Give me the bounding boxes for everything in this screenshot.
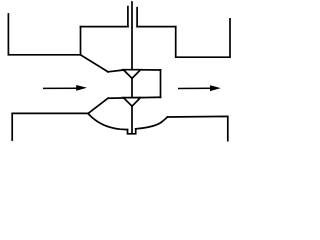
upper internal horizontal bbox=[108, 70, 161, 72]
bonnet top-left horizontal bbox=[81, 26, 128, 28]
lower-right body outline bbox=[168, 116, 228, 140]
bonnet left riser bbox=[80, 27, 82, 55]
upper-left body outline bbox=[8, 14, 80, 55]
lower internal horizontal bbox=[108, 96, 161, 99]
cage right vertical bbox=[160, 70, 162, 97]
body bowl right arc bbox=[136, 117, 168, 129]
upper-right body outline bbox=[176, 19, 230, 57]
stem mid segment bbox=[131, 78, 133, 97]
seat notch bbox=[128, 129, 136, 134]
body bowl left arc bbox=[88, 114, 128, 130]
flow arrow left bbox=[43, 85, 87, 91]
valve stem upper bbox=[131, 2, 133, 70]
packing gland left line bbox=[127, 7, 129, 27]
flow arrow right bbox=[178, 85, 221, 91]
upper internal diagonal bbox=[81, 55, 109, 72]
lower-left body outline bbox=[12, 113, 88, 140]
valve plug lower triangle bbox=[123, 98, 140, 107]
stem lower segment bbox=[131, 106, 133, 133]
bonnet top-right horizontal bbox=[137, 26, 176, 28]
lower internal diagonal bbox=[88, 98, 108, 113]
valve plug upper triangle bbox=[123, 70, 140, 79]
packing gland right line bbox=[136, 8, 138, 27]
